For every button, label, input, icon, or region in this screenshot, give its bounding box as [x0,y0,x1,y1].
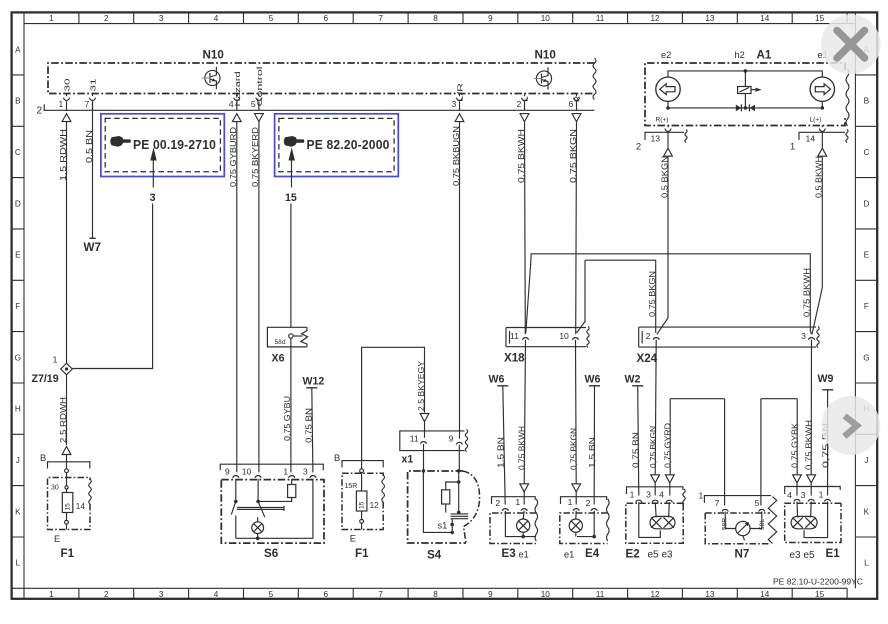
svg-text:0,75 BKGN: 0,75 BKGN [648,426,658,468]
svg-text:B: B [40,453,46,463]
S4 internal wiring [423,444,425,471]
svg-text:15: 15 [358,501,365,509]
svg-text:11: 11 [510,331,519,341]
N10 pin 7 [85,79,98,111]
wire 1,5 RDWH from N10 pin 1 to Z7/19 [58,122,68,364]
svg-text:0,5 BN: 0,5 BN [84,130,94,163]
combination instrument A1 box [645,63,845,126]
ground point W2 [625,373,644,495]
wire 2,5 RDWH from Z7/19 to fuse F1 [58,375,68,445]
grid row letters left [15,45,21,567]
grid row dividers [12,75,878,537]
transistor symbol inside N10 (left) [202,67,220,89]
svg-text:L: L [864,559,869,568]
svg-text:13: 13 [705,14,715,23]
svg-text:W6: W6 [585,373,601,385]
svg-text:8: 8 [433,14,438,23]
svg-text:1: 1 [568,497,573,507]
svg-text:e1: e1 [564,550,574,560]
svg-text:14: 14 [76,502,86,511]
S4 contact s1 [451,514,469,519]
svg-text:B: B [334,453,340,463]
wire 0,75 BKWH from N10 pin 2 to X18 pin 11 [516,122,526,335]
svg-text:2: 2 [636,142,641,152]
A1 internal top wire [668,69,822,77]
svg-text:F: F [15,302,20,311]
wire from N7 pin 5 to E1 pin 4 junction [761,399,802,506]
svg-text:0,75 BKWH: 0,75 BKWH [516,129,526,183]
fuse F1 (right) box [342,473,385,560]
svg-text:PE 82.20-2000: PE 82.20-2000 [307,137,390,152]
node 2 : N10 terminal bus line [44,104,595,110]
hazard switch S6 box [221,479,324,560]
svg-text:14: 14 [760,14,770,23]
S6 illumination lamp [252,522,264,534]
svg-text:9: 9 [225,466,230,476]
telltale lamp e1 (right arrow) [810,77,834,101]
svg-text:6: 6 [324,590,329,599]
wire 0,5 BKGN from A1 pin 13 to X24 pin 2 [657,156,670,334]
svg-text:W6: W6 [489,373,505,385]
turn signal switch S4 box [408,444,480,562]
svg-text:6: 6 [324,14,329,23]
svg-text:F1: F1 [355,547,369,560]
svg-text:R(+): R(+) [656,117,669,124]
combination switch N7 [699,491,777,561]
A1 pin 13 [636,126,687,157]
svg-text:N10: N10 [535,48,556,61]
svg-text:1: 1 [515,497,520,507]
grid column numbers bottom [49,590,824,599]
front lamp unit E2 [626,487,686,561]
grid row letters right [863,45,869,567]
svg-text:N7: N7 [735,547,750,560]
svg-text:1: 1 [283,466,288,476]
svg-text:15: 15 [815,14,825,23]
svg-text:D: D [863,199,869,208]
svg-text:11: 11 [596,590,605,599]
svg-text:0,75 BKWH: 0,75 BKWH [516,426,526,470]
N10 pin 6 [569,94,582,122]
svg-text:5: 5 [269,14,274,23]
grid column dividers [79,12,792,599]
svg-text:K: K [864,507,870,516]
svg-text:C: C [15,148,21,157]
svg-text:1,5 RDWH: 1,5 RDWH [58,129,68,181]
svg-text:13: 13 [705,590,715,599]
svg-text:30: 30 [51,485,59,492]
svg-text:4: 4 [787,490,792,500]
svg-text:A: A [15,45,21,54]
front lamp unit E1 [785,487,841,562]
svg-text:2: 2 [37,106,43,117]
arrow into F1 [62,447,71,455]
svg-text:11: 11 [596,14,605,23]
svg-text:H: H [15,405,21,414]
svg-text:2: 2 [104,14,109,23]
svg-text:2: 2 [104,590,109,599]
svg-text:1,5 BN: 1,5 BN [496,437,506,468]
svg-text:S4: S4 [427,549,442,562]
svg-text:L: L [521,96,530,102]
svg-text:15: 15 [64,503,71,511]
control module N10 box [48,63,595,94]
svg-text:1: 1 [790,142,795,152]
svg-text:e1: e1 [519,550,529,560]
svg-text:14: 14 [806,133,816,143]
svg-text:3: 3 [646,489,651,499]
svg-text:0,75 BN: 0,75 BN [304,408,314,443]
svg-text:4: 4 [214,14,219,23]
svg-text:D: D [15,199,21,208]
wire 0,75 BKYERD from N10 pin 5 to S6 pin 10 [250,122,260,473]
svg-text:12: 12 [650,590,660,599]
svg-text:X24: X24 [637,352,658,365]
svg-text:L/R: L/R [456,83,465,102]
ground point W6 (right) [585,373,601,504]
svg-text:E1: E1 [826,547,841,560]
svg-text:12: 12 [650,14,660,23]
wire 0,75 BKGN from X24 pin 2 to E2 pin 3 [648,340,660,496]
svg-text:Hazard: Hazard [233,72,242,107]
ground point W7 [84,238,101,254]
wire BKGN branch run to X24 pin 2 [577,260,657,333]
A1 internal lower wire with diodes [656,101,825,123]
svg-text:7: 7 [715,498,720,508]
ground point W9 [818,373,834,496]
wire 0,75 BKWH from X24 pin 3 to E1 pin 3 [804,340,816,496]
svg-text:12: 12 [370,501,380,510]
wire 0,75 GYRD from junction to E2 pin 4 [663,399,725,496]
svg-text:G: G [15,353,21,362]
svg-text:G: G [863,353,869,362]
svg-text:1: 1 [49,14,54,23]
svg-text:0,75 BKGN: 0,75 BKGN [647,271,657,317]
svg-text:1: 1 [59,99,64,109]
hazard switch S6 connector bracket [220,464,323,478]
svg-text:0,75 GYBU: 0,75 GYBU [282,396,292,441]
svg-text:11: 11 [410,433,419,443]
svg-text:E4: E4 [585,547,600,560]
svg-text:3: 3 [159,590,164,599]
fuse element 15A [62,493,73,513]
svg-text:C: C [863,148,869,157]
svg-text:5: 5 [755,498,760,508]
arrow 3 into PE box 1 [72,148,156,369]
svg-text:2,5 RDWH: 2,5 RDWH [58,397,68,443]
fuse F1 (right) terminal B bracket [334,453,383,473]
svg-text:14: 14 [760,590,770,599]
S6 resistor from pin 1 [291,479,293,485]
svg-text:15: 15 [285,192,297,204]
svg-text:0,75 GYRD: 0,75 GYRD [663,423,673,468]
svg-text:15: 15 [815,590,825,599]
ground point W6 (left) [489,373,509,504]
svg-text:5: 5 [269,590,274,599]
svg-text:7: 7 [378,14,383,23]
svg-text:2: 2 [495,498,500,508]
svg-text:1: 1 [699,491,704,501]
svg-text:J: J [864,456,868,465]
svg-text:9: 9 [488,590,493,599]
connector x1 bracket [400,430,468,466]
svg-text:7: 7 [378,590,383,599]
svg-text:31: 31 [89,79,98,92]
svg-text:0,75 BKGN: 0,75 BKGN [568,428,578,470]
turn signal lamp E4 [560,497,609,560]
svg-text:E3: E3 [502,547,517,560]
arrow 15 into PE box 2 [285,148,297,328]
wire 0,75 BKWH from X18 pin 11 to E3 pin 1 [516,340,528,505]
svg-text:2,5 BKYEGY: 2,5 BKYEGY [416,361,426,411]
svg-text:W12: W12 [303,375,325,387]
svg-text:3: 3 [150,192,156,204]
svg-text:h2: h2 [735,50,745,60]
svg-text:K: K [15,507,21,516]
fuse F1 (left) box [48,473,92,560]
svg-text:B: B [864,97,870,106]
svg-text:Z7/19: Z7/19 [32,373,59,385]
svg-text:3: 3 [159,14,164,23]
wire 0,75 GYBURD from N10 pin 4 to S6 pin 9 [228,122,238,473]
svg-text:L: L [16,559,21,568]
wire from junction to N7 pin 7 [724,399,726,506]
connector X18 bracket [504,327,589,365]
close button overlay [821,14,881,74]
svg-text:E: E [15,251,21,260]
svg-text:0,75 BKWH: 0,75 BKWH [802,268,812,317]
svg-text:10: 10 [559,331,569,341]
svg-text:0,75 BKGN: 0,75 BKGN [568,129,578,183]
S6 actuator bar [237,506,284,511]
svg-text:0,75 BKYERD: 0,75 BKYERD [250,127,260,187]
svg-text:3: 3 [801,331,806,341]
svg-text:0,75 GYBURD: 0,75 GYBURD [228,127,238,187]
svg-text:E: E [350,534,356,544]
svg-text:10: 10 [541,590,551,599]
svg-text:9: 9 [449,433,454,443]
telltale lamp e2 (left arrow) [656,77,680,101]
svg-text:10: 10 [242,466,252,476]
svg-text:F1: F1 [61,547,75,560]
svg-text:e3: e3 [790,550,802,561]
svg-text:10: 10 [541,14,551,23]
svg-text:e5: e5 [804,550,816,561]
svg-text:e3: e3 [662,550,674,561]
svg-text:2: 2 [646,331,651,341]
transistor symbol inside N10 (right) [533,67,551,89]
N10 pin 2 [517,94,530,122]
svg-text:PE 00.19-2710: PE 00.19-2710 [133,137,216,152]
svg-text:0,75 BKBUGN: 0,75 BKBUGN [451,126,461,186]
N10 pin 3 [452,83,465,122]
svg-text:0,75 GYBK: 0,75 GYBK [790,423,800,468]
turn signal lamp E3 [490,497,538,560]
svg-text:W9: W9 [818,373,834,385]
svg-text:e2: e2 [661,50,671,60]
N10 pin 1 [59,79,72,122]
svg-text:0,5 BKGN: 0,5 BKGN [659,156,669,198]
svg-text:15R: 15R [345,483,358,490]
svg-text:1,5 BN: 1,5 BN [587,437,597,468]
svg-text:30: 30 [63,79,72,92]
svg-text:1: 1 [630,489,635,499]
svg-text:E2: E2 [626,547,640,560]
wire BKWH junction run to X24 pin 3 [526,254,812,334]
svg-text:8: 8 [433,590,438,599]
svg-text:X18: X18 [504,352,525,365]
svg-text:A1: A1 [757,48,772,61]
PE reference box PE 82.20-2000 [275,114,399,177]
svg-text:3: 3 [801,490,806,500]
connector X24 bracket [637,327,820,366]
wire 0,75 BKBUGN from N10 pin 3 to x1 pin 9 [451,122,461,439]
svg-text:W7: W7 [84,241,101,254]
svg-text:3: 3 [303,466,308,476]
svg-text:x1: x1 [402,454,414,466]
svg-text:E: E [864,251,870,260]
next page button overlay [821,396,880,455]
wire 0,75 BKGN from N10 pin 6 to X18 pin 10 [568,122,578,335]
svg-text:Control: Control [255,66,264,107]
svg-text:0,75 BN: 0,75 BN [630,432,640,468]
svg-text:J: J [16,456,20,465]
svg-text:0,75 BKWH: 0,75 BKWH [804,420,814,470]
wire 0,5 BKWH from A1 pin 14 to X24 pin 3 [812,156,824,334]
svg-text:B: B [15,97,21,106]
svg-text:58d: 58d [275,339,286,346]
svg-text:4: 4 [659,489,664,499]
svg-text:4: 4 [214,590,219,599]
svg-text:E: E [54,534,60,544]
svg-text:s1: s1 [438,521,448,531]
wire 0,75 GYBU from X6 to S6 pin 1 [282,338,292,472]
S4 resistor [446,482,459,490]
svg-text:PE 82.10-U-2200-99YC: PE 82.10-U-2200-99YC [773,578,863,587]
svg-text:13: 13 [651,133,661,143]
svg-text:W2: W2 [625,373,641,385]
wire 0,5 BN from N10 pin 7 to W7 [84,101,94,238]
svg-text:2: 2 [586,498,591,508]
wire 2,5 BKYEGY from fuse F1 to connector x1 pin 11 [362,347,429,468]
svg-text:F: F [864,302,869,311]
svg-text:L(+): L(+) [810,117,822,124]
connector X6 [267,327,307,364]
N10 pin 4 [229,72,242,122]
svg-text:e5: e5 [648,550,660,561]
warning lamp h2 [738,71,762,108]
fuse F1 (left) terminal B bracket [40,453,90,472]
grid column numbers top [49,14,824,23]
svg-text:0,5 BKWH: 0,5 BKWH [814,156,824,198]
svg-text:1: 1 [819,489,824,499]
PE reference box PE 00.19-2710 [101,114,224,177]
N10 pin 5 [251,66,264,122]
svg-text:1: 1 [49,590,54,599]
svg-text:S6: S6 [264,547,279,560]
svg-text:7: 7 [85,99,90,109]
svg-text:N10: N10 [203,48,224,61]
svg-text:9: 9 [488,14,493,23]
connector sleeve Z7/19 [32,355,73,385]
svg-text:1: 1 [53,355,58,365]
A1 pin 14 [790,126,848,157]
wire 0,75 BKGN from X18 pin 10 to E4 pin 1 [568,340,580,505]
svg-text:R: R [573,96,582,102]
svg-text:X6: X6 [272,353,285,365]
ground point W12 [303,375,325,472]
